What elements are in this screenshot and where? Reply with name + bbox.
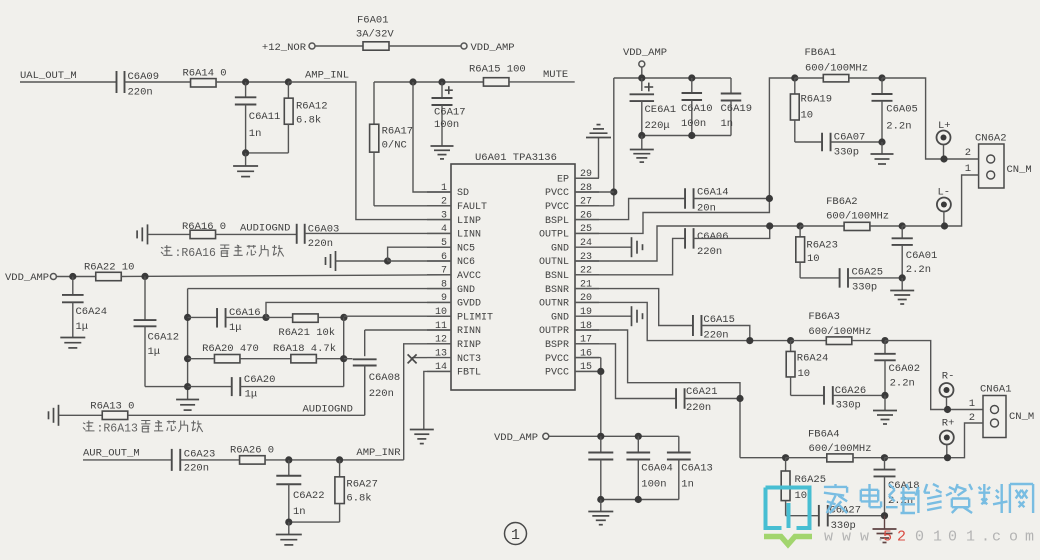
terminal L+: [937, 120, 951, 159]
ground below C6A02: [873, 395, 897, 424]
terminal R-: [940, 371, 955, 410]
note text: R6A13 placement note: [83, 421, 203, 436]
capacitor C6A08 220n: [344, 330, 451, 415]
pin 28 PVCC: [545, 183, 599, 199]
capacitor C6A11 1n: [235, 82, 280, 153]
resistor R6A23 10: [796, 226, 840, 278]
svg-text:AUR_OUT_M: AUR_OUT_M: [83, 448, 140, 460]
junction C6A11 tap: [242, 78, 249, 85]
svg-text:UAL_OUT_M: UAL_OUT_M: [20, 70, 77, 82]
svg-text:.: .: [981, 529, 990, 546]
wire CN6A2 pin1 to L- node: [945, 175, 979, 226]
svg-text:220n: 220n: [184, 463, 209, 475]
svg-text:C6A16: C6A16: [229, 307, 261, 319]
pin 3 LINP: [427, 210, 481, 226]
terminal L-: [937, 187, 951, 227]
ferrite FB6A4 600/100MHz: [786, 429, 885, 462]
node VDD_AMP (left): [5, 272, 56, 284]
pin 29 EP: [557, 169, 599, 185]
svg-text:BSNL: BSNL: [545, 271, 569, 282]
wire PLIMIT to pin 10: [344, 315, 451, 317]
svg-text:220n: 220n: [703, 330, 728, 342]
svg-text:EP: EP: [557, 174, 569, 185]
junction SD riser: [409, 78, 416, 85]
wire pin 9 GVDD: [266, 302, 451, 317]
svg-text:c: c: [992, 529, 1001, 546]
svg-text:BSPR: BSPR: [545, 340, 569, 351]
wire FB6A4 out to R+: [885, 423, 984, 458]
svg-text:C6A19: C6A19: [721, 103, 753, 115]
ground below C6A22: [276, 522, 302, 545]
junction R6A24 tap: [787, 337, 794, 344]
wire FB6A3 out to R-: [885, 341, 983, 410]
svg-text:C6A01: C6A01: [906, 250, 938, 262]
svg-text:PVCC: PVCC: [545, 354, 569, 365]
wire C6A23 to R6A26: [181, 459, 240, 461]
svg-text:2.2n: 2.2n: [906, 264, 931, 276]
capacitor C6A09 220n: [117, 71, 160, 99]
pin 6 NC6: [427, 252, 475, 268]
wire R6A16 to C6A03: [216, 233, 297, 235]
svg-text:1: 1: [441, 183, 447, 194]
pin 7 AVCC: [427, 266, 481, 282]
wire pins 16/15 riser: [575, 358, 601, 437]
wire SD riser to pin 1: [413, 82, 451, 192]
resistor R6A24 10: [786, 341, 828, 396]
net label AUDIOGND: [240, 223, 290, 235]
svg-text:330p: 330p: [836, 400, 861, 412]
connector CN6A1: [969, 384, 1035, 438]
svg-text:R6A13 0: R6A13 0: [90, 401, 134, 413]
svg-text:1n: 1n: [721, 118, 734, 130]
junction row B right: [340, 355, 347, 362]
svg-text:100n: 100n: [434, 119, 459, 131]
wire BSNR pin21 route: [575, 289, 693, 326]
capacitor C6A06 220n: [685, 228, 728, 258]
sheet number circle 1: [505, 523, 527, 545]
junction row B left: [184, 355, 191, 362]
svg-text:C6A24: C6A24: [76, 306, 108, 318]
wire R6A26 to AMP_INR: [266, 459, 404, 461]
junction VDD bus / C6A10: [688, 74, 695, 81]
resistor R6A17 0/NC: [370, 82, 451, 206]
svg-text:SD: SD: [457, 188, 469, 199]
svg-text:C6A02: C6A02: [889, 363, 921, 375]
ground NC5/NC6 (left-pointing): [326, 251, 388, 271]
svg-text:R6A21 10k: R6A21 10k: [278, 327, 335, 339]
svg-text:220n: 220n: [697, 246, 722, 258]
svg-text:220μ: 220μ: [645, 120, 670, 132]
ground below CE6A1: [630, 136, 654, 163]
op-amp U6A01 TPA3136 body: [451, 152, 575, 390]
svg-text:C6A15: C6A15: [703, 314, 735, 326]
capacitor C6A22 1n: [276, 460, 324, 522]
pin 2 FAULT: [427, 197, 487, 213]
svg-text:2: 2: [441, 197, 447, 208]
svg-text:1n: 1n: [293, 506, 306, 518]
svg-text:LINN: LINN: [457, 230, 481, 241]
capacitor C6A04 100n: [626, 436, 672, 499]
svg-text:m: m: [1025, 529, 1034, 546]
wire FB6A2 out to L-: [902, 225, 944, 227]
junction R+ node: [944, 454, 951, 461]
svg-text:R6A26 0: R6A26 0: [230, 445, 274, 457]
junction R6A25 tap: [782, 454, 789, 461]
svg-text:R6A14 0: R6A14 0: [183, 68, 227, 80]
junction FB6A2 out / C6A01: [899, 222, 906, 229]
pin 17 BSPR: [545, 335, 599, 351]
junction C6A17 tap: [438, 78, 445, 85]
pin 5 NC5: [427, 238, 475, 254]
junction NC6: [384, 257, 391, 264]
svg-text:3A/32V: 3A/32V: [356, 29, 395, 41]
resistor R6A18 4.7k: [241, 343, 344, 363]
svg-text:1n: 1n: [681, 479, 694, 491]
svg-text:10: 10: [807, 253, 820, 265]
fuse F6A01 3A/32V: [356, 15, 395, 51]
wire C6A21 to OUTPR node: [685, 398, 741, 400]
junction C6A18/C6A27 gnd: [881, 512, 888, 519]
svg-text:C6A12: C6A12: [148, 332, 180, 344]
capacitor C6A05 2.2n: [872, 78, 918, 142]
pin 20 OUTNR: [539, 293, 599, 309]
junction bottom rail C6A04: [635, 496, 642, 503]
svg-text:C6A25: C6A25: [852, 267, 884, 279]
svg-text:27: 27: [580, 197, 592, 208]
svg-text:RINP: RINP: [457, 340, 481, 351]
wire NC5 riser: [388, 247, 451, 261]
svg-text:220n: 220n: [369, 388, 394, 400]
capacitor CE6A1 220u (electrolytic): [630, 78, 676, 136]
wire R6A14 to AMP_INL node: [216, 81, 288, 83]
note text: R6A16 placement note: [161, 245, 284, 260]
capacitor C6A23 220n: [172, 449, 216, 475]
capacitor C6A18 2.2n: [874, 458, 920, 516]
svg-text:C6A14: C6A14: [697, 187, 729, 199]
svg-text:220n: 220n: [128, 87, 153, 99]
svg-text:FB6A3: FB6A3: [808, 311, 840, 323]
svg-text:10: 10: [801, 110, 814, 122]
svg-text:1μ: 1μ: [148, 346, 161, 358]
svg-text:C6A05: C6A05: [886, 104, 918, 116]
wire C6A03 to pin 4: [305, 232, 451, 234]
net label AUDIOGND (lower): [303, 404, 353, 416]
svg-text:2: 2: [965, 147, 971, 159]
junction L+ node: [940, 155, 947, 162]
wire +12_NOR to fuse: [315, 45, 363, 47]
ferrite FB6A1 600/100MHz: [795, 47, 882, 82]
svg-text:1μ: 1μ: [245, 389, 258, 401]
svg-text:NCT3: NCT3: [457, 354, 481, 365]
resistor R6A27 6.8k: [289, 460, 378, 522]
svg-text:CN_M: CN_M: [1009, 411, 1034, 423]
junction PVCC pins 28: [610, 188, 617, 195]
svg-text:NC5: NC5: [457, 243, 475, 254]
resistor R6A22 10: [84, 262, 134, 281]
svg-text:1: 1: [933, 529, 942, 546]
svg-text:AMP_INR: AMP_INR: [356, 447, 401, 459]
capacitor C6A10 100n: [681, 78, 713, 136]
pin 26 BSPL: [545, 210, 599, 226]
svg-text:C6A23: C6A23: [184, 449, 216, 461]
svg-text:PVCC: PVCC: [545, 202, 569, 213]
wire NC6 stub: [388, 260, 451, 262]
junction FB6A1 output / C6A05: [878, 74, 885, 81]
net label UAL_OUT_M: [20, 70, 77, 82]
junction C6A01/C6A25 gnd: [899, 274, 906, 281]
svg-text:C6A10: C6A10: [681, 103, 713, 115]
svg-text:+12_NOR: +12_NOR: [262, 42, 307, 54]
watermark logo (green book): [764, 537, 812, 545]
pin 25 OUTPL: [539, 224, 599, 240]
svg-text:GND: GND: [457, 285, 475, 296]
resistor R6A12 6.8k: [246, 82, 328, 153]
wire OUTPR pin18 route: [575, 330, 740, 458]
capacitor C6A03 220n: [297, 224, 340, 251]
junction pin 15: [597, 368, 604, 375]
svg-text:VDD_AMP: VDD_AMP: [5, 272, 49, 284]
svg-text:RINN: RINN: [457, 326, 481, 337]
junction R6A12 tap: [285, 78, 292, 85]
svg-text:C6A17: C6A17: [434, 107, 466, 119]
wire EP stub: [575, 177, 599, 179]
svg-text:220n: 220n: [308, 238, 333, 250]
svg-text:220n: 220n: [686, 402, 711, 414]
wire VDD_AMP to R6A22: [56, 276, 95, 278]
svg-text:w: w: [860, 529, 869, 546]
svg-text:AVCC: AVCC: [457, 271, 481, 282]
svg-text:OUTPR: OUTPR: [539, 326, 569, 337]
capacitor C6A19 1n: [721, 78, 753, 136]
node VDD_AMP (bottom): [494, 432, 549, 444]
junction R6A23 tap: [797, 222, 804, 229]
svg-text:10: 10: [798, 368, 811, 380]
wire FB6A1 out to L+: [882, 78, 979, 159]
ground below FBTL: [410, 430, 434, 444]
svg-text:C6A07: C6A07: [834, 132, 866, 144]
svg-text:28: 28: [580, 183, 592, 194]
svg-text:1μ: 1μ: [76, 321, 89, 333]
pin 15 PVCC: [545, 362, 599, 378]
ground below C6A01: [890, 278, 914, 304]
svg-text:0: 0: [915, 529, 924, 546]
svg-text::R6A16: :R6A16: [175, 247, 217, 260]
wire OUTNR pin20 route: [575, 302, 791, 340]
svg-text:OUTNL: OUTNL: [539, 257, 569, 268]
wire pin28 stub: [575, 191, 614, 193]
capacitor C6A25 330p: [840, 267, 903, 294]
pin 13 NCT3: [427, 348, 481, 364]
svg-text:19: 19: [580, 307, 592, 318]
junction GVDD riser: [262, 314, 269, 321]
svg-text:24: 24: [580, 238, 592, 249]
svg-text:C6A09: C6A09: [128, 71, 160, 83]
capacitor C6A20 1u: [188, 374, 344, 401]
svg-text:FB6A2: FB6A2: [826, 196, 858, 208]
svg-text:0/NC: 0/NC: [382, 140, 407, 152]
resistor R6A15 100: [469, 64, 526, 87]
svg-text:13: 13: [435, 348, 447, 359]
svg-text:2.2n: 2.2n: [890, 378, 915, 390]
pin 8 GND: [427, 279, 475, 295]
svg-text:2: 2: [897, 529, 906, 546]
wire UAL_OUT_M to C6A09: [20, 81, 117, 83]
svg-text:VDD_AMP: VDD_AMP: [623, 47, 667, 59]
svg-text:AUDIOGND: AUDIOGND: [303, 404, 353, 416]
svg-text:2.2n: 2.2n: [886, 121, 911, 133]
svg-text:1: 1: [969, 398, 975, 410]
svg-text:600/100MHz: 600/100MHz: [808, 326, 871, 338]
svg-text:R6A18 4.7k: R6A18 4.7k: [273, 343, 336, 355]
svg-text:C6A20: C6A20: [244, 374, 276, 386]
svg-text:R6A27: R6A27: [346, 479, 378, 491]
ground R6A13 (left-pointing): [49, 405, 103, 426]
resistor R6A26 0: [230, 445, 274, 465]
junction row A left: [184, 314, 191, 321]
junction VDD rail / cap1: [597, 433, 604, 440]
junction FB6A1 input / R6A19: [791, 74, 798, 81]
svg-text:FB6A4: FB6A4: [808, 429, 840, 441]
ferrite FB6A3 600/100MHz: [791, 311, 885, 345]
svg-text:600/100MHz: 600/100MHz: [826, 211, 889, 223]
wire C6A06 to OUTNL node: [694, 226, 770, 238]
pin 14 FBTL: [427, 362, 481, 378]
svg-text:MUTE: MUTE: [543, 69, 568, 81]
pin 12 RINP: [427, 335, 481, 351]
junction C6A22/R6A27 gnd: [285, 519, 292, 526]
svg-text:PLIMIT: PLIMIT: [457, 312, 493, 323]
wire fuse to VDD_AMP: [389, 45, 461, 47]
svg-text:1: 1: [966, 529, 975, 546]
wire FB6A4 row: [740, 457, 786, 459]
wire BSPR pin17 route: [575, 344, 676, 399]
svg-text:R6A17: R6A17: [382, 126, 414, 138]
ground below C6A05: [871, 142, 894, 164]
wire R6A22 to pin 7 AVCC: [121, 275, 451, 277]
capacitor C6A15 220n: [693, 314, 735, 342]
capacitor C6A13 1n: [601, 436, 713, 499]
svg-text:VDD_AMP: VDD_AMP: [471, 42, 515, 54]
svg-text:F6A01: F6A01: [357, 15, 389, 27]
net label AMP_INR: [356, 447, 401, 459]
no-connect X pin 13 NCT3: [408, 354, 427, 363]
watermark chinese characters: [824, 484, 1033, 513]
svg-text:VDD_AMP: VDD_AMP: [494, 432, 538, 444]
svg-text:PVCC: PVCC: [545, 368, 569, 379]
resistor R6A14 0: [183, 68, 227, 88]
wire VDD bus: [614, 78, 731, 206]
wire AMP_INL to pin 3: [288, 82, 451, 220]
junction C6A14/OUTPL: [766, 195, 773, 202]
net label MUTE: [543, 69, 568, 81]
svg-text:C6A22: C6A22: [293, 490, 325, 502]
junction row C left: [184, 383, 191, 390]
resistor R6A16 0: [182, 221, 226, 239]
capacitor C6A01 2.2n: [892, 226, 938, 278]
capacitor C6A17 100n (polarized): [432, 82, 466, 146]
svg-text:R6A24: R6A24: [797, 353, 829, 365]
junction R6A27 tap: [336, 456, 343, 463]
svg-text:OUTNR: OUTNR: [539, 299, 569, 310]
wire C6A14 to OUTPL node: [694, 198, 770, 200]
resistor R6A13 0: [90, 401, 134, 420]
svg-text:100n: 100n: [641, 479, 666, 491]
junction C6A02/C6A26 gnd: [881, 392, 888, 399]
net label AMP_INL: [305, 70, 349, 82]
pin 4 LINN: [427, 224, 481, 240]
svg-text:FBTL: FBTL: [457, 368, 481, 379]
svg-text:R6A12: R6A12: [296, 101, 328, 113]
wire AUR_OUT_M to C6A23: [83, 459, 172, 461]
capacitor C6A24 1u: [62, 277, 107, 338]
svg-text:C6A26: C6A26: [835, 385, 867, 397]
ground pin 24 (right-pointing): [599, 237, 643, 257]
pin 11 RINN: [427, 321, 481, 337]
junction C6A11/R6A12 gnd node: [242, 149, 249, 156]
junction C6A05/C6A07 gnd: [878, 138, 885, 145]
watermark url text: [824, 529, 1034, 546]
svg-text:BSPL: BSPL: [545, 216, 569, 227]
svg-text:29: 29: [580, 169, 592, 180]
svg-text::R6A13: :R6A13: [97, 423, 139, 436]
capacitor C6A26 330p: [824, 385, 885, 412]
svg-text:330p: 330p: [852, 282, 877, 294]
net label AUR_OUT_M: [83, 448, 140, 460]
ground below C6A17: [431, 146, 454, 159]
svg-text:C6A21: C6A21: [686, 386, 718, 398]
svg-text:R+: R+: [942, 418, 955, 430]
svg-text:100n: 100n: [681, 118, 706, 130]
junction C6A15/OUTNR: [746, 337, 753, 344]
wire PLIMIT column: [343, 317, 345, 386]
junction C6A10 bottom: [688, 132, 695, 139]
wire pin 14 FBTL to ground: [424, 371, 451, 429]
wire C6A09 to R6A14: [125, 81, 192, 83]
svg-text:PVCC: PVCC: [545, 188, 569, 199]
wire C6A15 to OUTNR node: [702, 326, 750, 341]
ground pin 19 (right-pointing): [599, 306, 643, 326]
svg-text:10: 10: [795, 490, 808, 502]
pin 24 GND: [551, 238, 599, 254]
svg-text:LINP: LINP: [457, 216, 481, 227]
pin 10 PLIMIT: [427, 307, 493, 323]
svg-text:R6A25: R6A25: [795, 474, 827, 486]
wire OUTPL pin25 route: [575, 78, 795, 233]
capacitor C6A27 330p: [819, 505, 885, 533]
junction VDD bus / CE6A1: [638, 74, 645, 81]
junction VDD rail / C6A04: [635, 433, 642, 440]
svg-text:AMP_INL: AMP_INL: [305, 70, 349, 82]
svg-text:NC6: NC6: [457, 257, 475, 268]
wire MUTE: [509, 81, 575, 83]
capacitor C6A07 330p: [822, 132, 882, 159]
capacitor C6A02 2.2n: [874, 341, 920, 396]
svg-text:C6A06: C6A06: [697, 231, 729, 243]
connector CN6A2: [965, 133, 1032, 189]
junction PLIMIT node: [340, 314, 347, 321]
svg-text:R6A16 0: R6A16 0: [182, 221, 226, 233]
resistor R6A20 470: [188, 343, 259, 363]
junction C6A06/OUTNL: [766, 222, 773, 229]
svg-text:C6A04: C6A04: [641, 463, 673, 475]
svg-text:CN_M: CN_M: [1007, 164, 1032, 176]
svg-text:2: 2: [969, 412, 975, 424]
wire VDD bottom rail: [549, 435, 679, 437]
junction FB6A4 out / C6A18: [881, 454, 888, 461]
ground below C6A18: [873, 516, 897, 543]
svg-text:600/100MHz: 600/100MHz: [809, 443, 872, 455]
junction C6A22 tap: [285, 456, 292, 463]
